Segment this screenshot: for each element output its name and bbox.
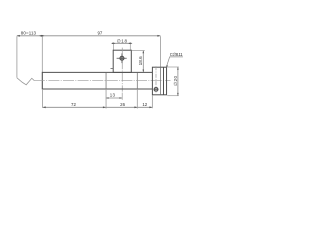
bottom chain dim line [43, 106, 153, 108]
d20 dim extension bottom [167, 95, 179, 97]
chain extension left (shaft left edge down) [42, 89, 44, 108]
extension line left (break end) [16, 36, 18, 78]
block height dim extension top [132, 50, 145, 52]
dim 13 arrow right [119, 97, 122, 99]
shaft axis centerline [34, 79, 171, 81]
screw centerline vertical [155, 66, 157, 94]
boss block outline [113, 50, 131, 72]
svg-text:72: 72 [71, 102, 76, 107]
block height dim : vertical dim line [142, 50, 144, 72]
d18 arrow left [111, 43, 115, 45]
svg-text:80=113: 80=113 [21, 31, 37, 36]
hole cross horizontal arm [117, 57, 127, 59]
shaft feature line A [105, 73, 107, 89]
dimension 80=113 / 97 : main dim line [17, 35, 161, 37]
d18 extension stub left [112, 44, 114, 50]
end cap outline [152, 67, 166, 95]
shaft bottom edge [42, 88, 152, 90]
hole target circle [120, 56, 124, 60]
svg-text:97: 97 [97, 31, 102, 36]
chain arrow at right end [149, 106, 152, 108]
shaft feature line B [136, 73, 138, 89]
chain extension at feature B [136, 89, 138, 109]
shaft left edge [41, 72, 43, 90]
small stub left of block [111, 68, 114, 70]
cap inner line 2 [163, 67, 165, 95]
d20 dim extension top [167, 66, 179, 68]
chain arrow at x=137.35 [134, 106, 137, 108]
dim arrow middle tick at x=42.8 [39, 35, 45, 37]
dim arrow right end [157, 35, 160, 37]
svg-text:∅20: ∅20 [173, 76, 178, 86]
leader arrowhead [166, 65, 168, 67]
hole cross vertical arm [121, 53, 123, 63]
svg-text:C∅8.11: C∅8.11 [170, 52, 183, 57]
chain extension right (cap left edge down) [151, 95, 153, 108]
break zigzag line [17, 78, 34, 85]
chain arrow at left end [43, 106, 46, 108]
dim 13 line [106, 97, 122, 99]
d18 arrow right [128, 43, 132, 45]
dimension d18 : dim line [112, 42, 131, 44]
d20 arrow top [177, 67, 179, 70]
svg-text:12: 12 [142, 102, 147, 107]
d18 extension stub right [129, 44, 131, 50]
svg-text:26: 26 [120, 102, 125, 107]
cap inner line 1 [160, 67, 162, 95]
d20 arrow bottom [177, 93, 179, 96]
dim arrow left end [17, 35, 20, 37]
dim 13 arrow left [106, 97, 109, 99]
screw circle [154, 87, 158, 91]
dim 13 right extension (hole centerline ext) [121, 93, 123, 100]
block height dim arrow bottom [143, 70, 145, 73]
screw cross horizontal arm [154, 88, 159, 90]
shaft top edge [42, 71, 152, 73]
chain arrow at x=105.85 [103, 106, 106, 108]
svg-text:18.6: 18.6 [138, 56, 143, 66]
extension line middle (shaft left end) [41, 36, 43, 72]
d20 dim line [177, 67, 179, 96]
svg-text:∅18: ∅18 [117, 38, 128, 43]
block height dim arrow top [143, 50, 145, 53]
chain extension at feature A [105, 89, 107, 109]
extension line right (cap top) [160, 36, 162, 67]
hole centerline vertical [121, 48, 123, 92]
svg-text:13: 13 [110, 93, 116, 98]
leader line for C d8.11 [166, 57, 183, 67]
